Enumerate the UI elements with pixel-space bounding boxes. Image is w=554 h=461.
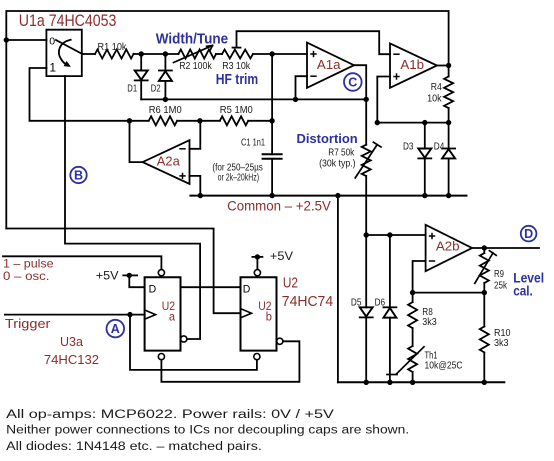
svg-text:A1b: A1b — [400, 58, 424, 72]
svg-text:A1a: A1a — [317, 58, 341, 72]
svg-text:D5: D5 — [351, 296, 362, 308]
svg-text:10k: 10k — [427, 92, 442, 104]
svg-text:10k@25C: 10k@25C — [425, 359, 463, 371]
svg-text:R1 10k: R1 10k — [98, 41, 128, 53]
svg-text:Common – +2.5V: Common – +2.5V — [227, 199, 332, 214]
svg-text:b: b — [266, 309, 272, 323]
svg-text:All op-amps: MCP6022. Powe: All op-amps: MCP6022. Power rails: 0V / … — [6, 409, 334, 421]
svg-text:D6: D6 — [375, 296, 386, 308]
svg-text:3k3: 3k3 — [494, 337, 509, 349]
svg-text:D2: D2 — [151, 82, 161, 94]
svg-text:U2: U2 — [283, 275, 298, 292]
svg-text:R5 1M0: R5 1M0 — [220, 104, 253, 116]
svg-text:R3 10k: R3 10k — [222, 60, 251, 72]
svg-text:D: D — [524, 227, 533, 241]
svg-text:R6 1M0: R6 1M0 — [149, 104, 182, 116]
svg-text:HF trim: HF trim — [216, 72, 258, 88]
svg-text:or 2k–20kHz): or 2k–20kHz) — [218, 172, 260, 183]
svg-text:B: B — [74, 168, 83, 182]
svg-text:C1 1n1: C1 1n1 — [241, 137, 265, 149]
svg-text:A2b: A2b — [436, 240, 460, 254]
svg-text:D: D — [243, 283, 251, 295]
svg-text:D: D — [149, 283, 157, 295]
svg-text:0 – osc.: 0 – osc. — [3, 269, 50, 283]
svg-text:74HC74: 74HC74 — [282, 294, 333, 310]
svg-text:25k: 25k — [494, 280, 508, 292]
svg-text:R7 50k: R7 50k — [328, 146, 355, 158]
svg-text:D1: D1 — [127, 82, 137, 94]
svg-text:All diodes: 1N4148 etc. – mat: All diodes: 1N4148 etc. – matched pairs. — [6, 441, 262, 453]
svg-text:C: C — [348, 75, 357, 89]
svg-text:D3: D3 — [403, 141, 414, 153]
svg-text:cal.: cal. — [513, 284, 533, 299]
svg-text:A: A — [111, 322, 120, 336]
svg-text:74HC132: 74HC132 — [44, 353, 99, 367]
svg-text:(30k typ.): (30k typ.) — [319, 159, 356, 170]
svg-text:0: 0 — [49, 36, 55, 48]
svg-text:3k3: 3k3 — [422, 316, 437, 328]
svg-text:R2 100k: R2 100k — [179, 60, 212, 72]
svg-text:1: 1 — [49, 60, 56, 74]
svg-text:R9: R9 — [494, 268, 504, 280]
svg-text:U1a 74HC4053: U1a 74HC4053 — [19, 11, 117, 30]
svg-text:Trigger: Trigger — [5, 316, 51, 331]
svg-text:R4: R4 — [431, 81, 442, 93]
svg-text:U3a: U3a — [60, 334, 84, 349]
svg-text:+5V: +5V — [270, 251, 293, 263]
svg-text:Width/Tune: Width/Tune — [156, 31, 228, 47]
svg-text:A2a: A2a — [157, 154, 180, 168]
svg-text:Distortion: Distortion — [297, 131, 358, 146]
svg-text:Neither power connections to I: Neither power connections to ICs nor dec… — [6, 425, 409, 437]
svg-text:+5V: +5V — [96, 271, 119, 283]
svg-text:a: a — [169, 309, 175, 323]
svg-text:D4: D4 — [434, 141, 445, 153]
